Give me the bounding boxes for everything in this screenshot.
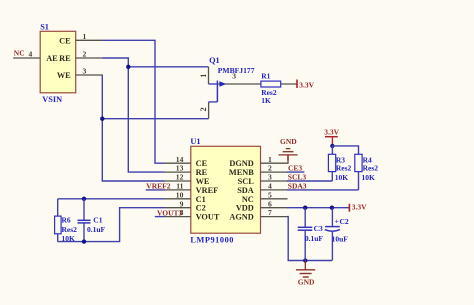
resistor R1 [261,81,297,87]
svg-text:7: 7 [268,208,272,217]
svg-text:AE: AE [46,54,58,63]
wire 3.3V to R3 top [331,146,333,154]
pin 3 SCL of U1 [238,173,288,186]
svg-text:13: 13 [176,164,184,173]
pin 2 MENB of U1 [229,164,288,177]
wire 3.3V to R4 top [332,146,358,154]
ground symbol top GND [279,137,298,161]
pin 3 of S1 [76,74,103,76]
svg-text:VREF2: VREF2 [146,182,170,191]
resistor R3 [328,154,335,181]
svg-text:3.3V: 3.3V [324,128,339,137]
pin 4 SDA of U1 [237,182,287,195]
svg-text:GND: GND [298,277,315,286]
pin 12 WE of U1 [164,173,210,186]
svg-text:MENB: MENB [229,168,254,177]
pin 11 VREF of U1 [164,182,218,195]
svg-text:S1: S1 [40,22,49,31]
power port 3.3V top [324,128,339,146]
junction VDD/C3 [303,206,307,210]
pin 1 of S1 [76,39,103,41]
junction WE net / source [100,117,104,121]
svg-text:3.3V: 3.3V [299,81,314,90]
svg-text:RE: RE [196,168,208,177]
svg-text:4: 4 [268,182,272,191]
svg-text:CE: CE [196,159,208,168]
svg-text:0.1uF: 0.1uF [305,234,324,243]
wire SCL to R3 [287,180,333,182]
wire AGND to ground rail [287,217,332,261]
svg-text:1K: 1K [261,96,271,105]
svg-text:Res2: Res2 [336,164,352,173]
svg-text:R1: R1 [261,71,270,80]
svg-text:C2: C2 [196,204,206,213]
svg-text:1: 1 [199,74,208,78]
svg-text:10uF: 10uF [332,234,349,243]
pin 13 RE of U1 [164,164,207,177]
wire SDA to R4 [287,189,359,191]
svg-text:3: 3 [83,67,87,76]
svg-text:Res2: Res2 [363,164,379,173]
wire bottom rail to U1 pin9 [58,208,165,242]
component S1 body [40,31,75,93]
svg-text:9: 9 [180,199,184,208]
wire VDD rail [287,207,350,209]
svg-text:NC: NC [14,49,25,58]
capacitor C3 [298,208,313,261]
pin 10 C1 of U1 [164,190,205,203]
pin 9 C2 of U1 [164,199,205,212]
svg-text:RE: RE [59,54,71,63]
power port 3.3V right [349,203,367,212]
transistor Q1 [199,67,261,119]
svg-text:10K: 10K [335,173,349,182]
svg-text:DGND: DGND [229,159,253,168]
svg-text:3.3V: 3.3V [352,203,367,212]
svg-text:11: 11 [176,182,183,191]
pin 14 CE of U1 [164,155,207,168]
svg-text:SCL: SCL [238,177,255,186]
pin 4 of S1 [13,57,40,59]
svg-text:2: 2 [268,164,272,173]
wire VREF2 stub [146,189,165,191]
svg-text:LMP91000: LMP91000 [190,236,234,245]
svg-text:C1: C1 [93,215,102,224]
svg-text:U1: U1 [190,137,200,146]
junction ground rail [303,258,307,262]
svg-text:Q1: Q1 [209,56,220,65]
wire S1 pin2 to U1 pin13 [103,58,165,172]
svg-text:10K: 10K [362,173,376,182]
svg-text:C2: C2 [340,217,349,226]
svg-text:C3: C3 [314,224,323,233]
svg-text:GND: GND [280,137,297,146]
pin 2 of S1 [76,57,103,59]
svg-text:PMBFJ177: PMBFJ177 [218,66,255,75]
ground symbol bottom GND [296,261,315,287]
svg-text:SCL3: SCL3 [288,173,307,182]
wire DGND to ground [287,155,289,164]
pin 1 DGND of U1 [229,155,287,168]
wire MENB stub [287,171,305,173]
svg-text:WE: WE [196,177,210,186]
svg-text:10: 10 [176,190,184,199]
junction RE net / Q1 [126,65,130,69]
svg-text:12: 12 [176,173,184,182]
capacitor C1 [78,199,91,242]
svg-text:2: 2 [199,107,208,111]
wire S1 pin3 to U1 pin12 [102,75,164,181]
svg-text:VSIN: VSIN [42,95,62,104]
svg-text:NC: NC [242,195,254,204]
wire node to Q1 top [128,66,208,68]
wire C1 net pin10 [58,198,165,200]
svg-text:5: 5 [268,190,272,199]
resistor R6 [55,199,62,242]
svg-text:AGND: AGND [229,213,253,222]
svg-text:WE: WE [57,71,71,80]
svg-text:+: + [335,216,339,225]
resistor R4 [355,154,362,190]
svg-text:4: 4 [29,50,33,59]
pin 7 AGND of U1 [229,208,287,221]
pin 5 NC of U1 [242,190,288,203]
svg-text:14: 14 [176,155,184,164]
svg-text:SDA: SDA [237,186,254,195]
power port 3.3V at R1 [297,80,315,90]
svg-text:6: 6 [268,199,272,208]
svg-text:3: 3 [268,173,272,182]
wire S1 pin1 to U1 pin14 [103,40,165,163]
svg-text:CE: CE [59,36,71,45]
junction C1 bottom [82,239,86,243]
svg-text:VDD: VDD [236,204,254,213]
svg-text:R6: R6 [62,215,71,224]
svg-text:1: 1 [268,155,272,164]
svg-text:VREF: VREF [196,186,219,195]
svg-text:2: 2 [83,50,87,59]
svg-text:C1: C1 [196,195,206,204]
wire Q1 source return [102,118,208,120]
svg-text:VOUT: VOUT [196,213,220,222]
capacitor C2 polarized [325,208,340,261]
pin 8 VOUT of U1 [164,208,220,221]
junction pin10 / C1 [82,197,86,201]
svg-text:CE3: CE3 [288,164,302,173]
junction VDD/C2 [330,206,334,210]
pin 6 VDD of U1 [236,199,288,212]
wire VOUT3 stub [155,216,165,218]
svg-text:Res2: Res2 [62,225,78,234]
svg-text:1: 1 [83,32,87,41]
junction 3.3V / R3 / R4 [330,144,334,148]
svg-text:0.1uF: 0.1uF [87,225,106,234]
svg-text:SDA3: SDA3 [288,181,307,190]
IC U1 body [191,146,261,233]
svg-text:VOUT3: VOUT3 [157,209,183,218]
